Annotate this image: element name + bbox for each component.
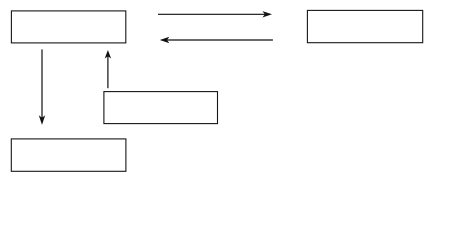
arrow left (below) — [160, 37, 273, 43]
arrow up — [105, 50, 111, 88]
arrow down — [39, 49, 45, 125]
box middle — [104, 92, 218, 124]
arrow right (top) — [158, 11, 272, 17]
box top-left — [11, 11, 125, 43]
box top-right — [307, 10, 422, 42]
box bottom-left — [11, 139, 126, 171]
